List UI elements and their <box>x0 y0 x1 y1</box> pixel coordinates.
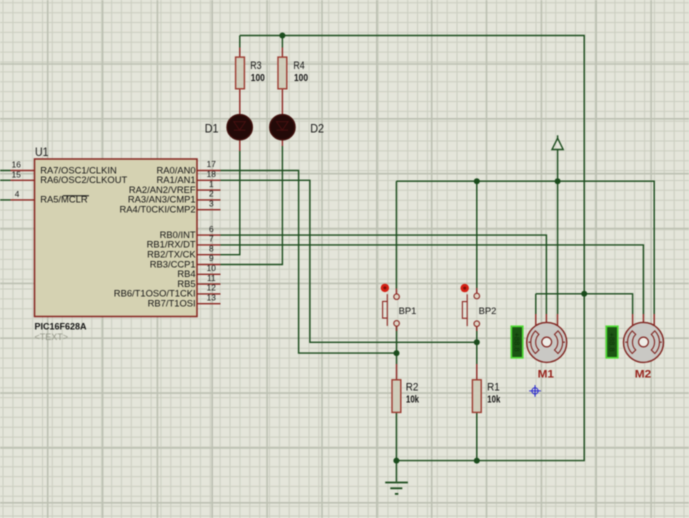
svg-text:PIC16F628A: PIC16F628A <box>35 322 88 332</box>
svg-text:13: 13 <box>207 292 217 302</box>
svg-text:R4: R4 <box>293 60 304 72</box>
svg-text:100: 100 <box>251 73 265 84</box>
svg-text:M1: M1 <box>538 369 554 381</box>
svg-text:2: 2 <box>209 189 214 199</box>
svg-text:M2: M2 <box>635 369 651 381</box>
svg-text:15: 15 <box>12 170 22 180</box>
svg-text:RB7/T1OSI: RB7/T1OSI <box>148 298 196 309</box>
svg-text:BP2: BP2 <box>479 306 497 317</box>
svg-text:U1: U1 <box>35 145 49 159</box>
svg-text:R2: R2 <box>406 381 419 393</box>
svg-text:D2: D2 <box>310 123 324 135</box>
svg-text:1: 1 <box>209 179 214 189</box>
svg-text:RA4/T0CKI/CMP2: RA4/T0CKI/CMP2 <box>120 204 196 215</box>
svg-text:<TEXT>: <TEXT> <box>35 332 69 342</box>
svg-text:6: 6 <box>209 224 214 234</box>
svg-text:R1: R1 <box>487 381 500 393</box>
svg-text:100: 100 <box>294 73 308 84</box>
svg-text:8: 8 <box>209 243 214 253</box>
svg-text:9: 9 <box>209 253 214 263</box>
svg-text:11: 11 <box>207 273 216 283</box>
svg-text:3: 3 <box>209 198 214 208</box>
svg-text:R3: R3 <box>250 60 261 72</box>
svg-text:RA6/OSC2/CLKOUT: RA6/OSC2/CLKOUT <box>40 174 127 185</box>
svg-text:17: 17 <box>207 159 217 169</box>
svg-text:7: 7 <box>209 234 214 244</box>
svg-text:10k: 10k <box>406 395 419 406</box>
svg-text:10: 10 <box>207 263 217 273</box>
svg-text:16: 16 <box>12 160 22 170</box>
svg-text:4: 4 <box>15 189 20 199</box>
svg-text:BP1: BP1 <box>399 306 417 317</box>
svg-text:10k: 10k <box>487 395 500 406</box>
svg-text:18: 18 <box>207 169 217 179</box>
svg-text:D1: D1 <box>205 123 219 135</box>
svg-text:+88.8: +88.8 <box>512 333 521 352</box>
svg-text:+88.8: +88.8 <box>607 333 616 352</box>
svg-text:12: 12 <box>207 283 217 293</box>
